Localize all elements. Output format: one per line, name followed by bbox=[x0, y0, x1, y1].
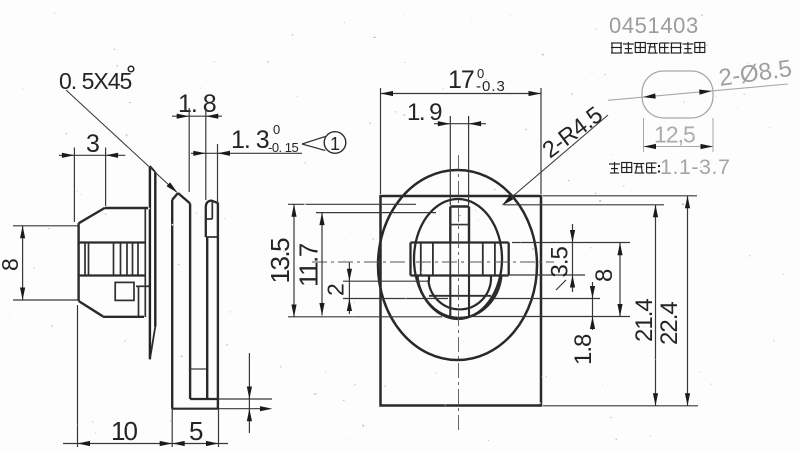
dim 1.9 arrow left bbox=[438, 121, 451, 126]
dim 1.8 ext lines bbox=[188, 108, 190, 192]
svg-text:1.8: 1.8 bbox=[570, 334, 597, 365]
dim 3 line bbox=[59, 154, 125, 156]
svg-text:0: 0 bbox=[273, 122, 281, 137]
dim 1.9 line bbox=[434, 123, 486, 125]
dim 13.5 ext lines bbox=[288, 203, 416, 205]
dim 21.4 arrow bottom bbox=[653, 393, 658, 406]
foot thickness arrow up bbox=[247, 409, 252, 422]
side view: head lower notch bbox=[115, 282, 134, 300]
dim 1.8 (side top) line bbox=[172, 115, 222, 117]
svg-text:11.7: 11.7 bbox=[294, 243, 324, 287]
dim 3.5 tick bbox=[556, 280, 566, 290]
svg-text:5: 5 bbox=[189, 416, 204, 446]
dim 12,5 ext lines bbox=[643, 118, 645, 152]
foot thickness arrow down bbox=[247, 387, 252, 400]
chamfer leader arrow bbox=[167, 182, 178, 192]
dim 1.3 arrow right bbox=[218, 151, 231, 156]
dim 1.8 (right) arrow bottom bbox=[590, 317, 595, 330]
dim 21.4 line bbox=[655, 205, 657, 406]
hole diameter arrow right bbox=[699, 90, 712, 95]
chamfer note degree circle bbox=[128, 66, 134, 72]
hole stadium outline bbox=[642, 71, 713, 118]
svg-text:22.4: 22.4 bbox=[656, 302, 683, 345]
dim 22.4 arrow top bbox=[685, 196, 690, 209]
chamfer leader bbox=[66, 90, 177, 192]
dim 10/5 line bbox=[63, 443, 228, 445]
dim 1.3 line bbox=[191, 152, 302, 154]
dim 2 line bbox=[348, 263, 350, 315]
svg-text:1. 3: 1. 3 bbox=[231, 126, 269, 154]
svg-text:1. 8: 1. 8 bbox=[178, 90, 216, 118]
scan speckle bbox=[510, 15, 511, 16]
dim 12,5 line bbox=[644, 146, 714, 148]
svg-text:13.5: 13.5 bbox=[265, 238, 295, 284]
front view: horizontal centerline bbox=[312, 261, 554, 263]
foot thickness side arrow bbox=[260, 406, 273, 411]
dim 10 arrow left bbox=[78, 441, 91, 446]
side view: flange plate bbox=[149, 166, 151, 359]
svg-text:1.1-3.7: 1.1-3.7 bbox=[660, 155, 730, 179]
dim 11.7 arrow bottom bbox=[319, 303, 324, 316]
dim 13.5 arrow top bbox=[291, 204, 296, 217]
dim 2 ext lines bbox=[343, 280, 430, 282]
balloon 1 leader triangle bbox=[302, 137, 325, 145]
title CJK text (sheet-metal hole schematic) bbox=[611, 42, 622, 44]
dim 8 (left) arrow bottom bbox=[20, 288, 25, 301]
dim 11.7 line bbox=[321, 213, 323, 316]
dim 11.7 ext line top bbox=[316, 212, 436, 214]
hole diameter arrow left bbox=[643, 93, 656, 98]
svg-text:3: 3 bbox=[86, 130, 100, 158]
dim 1.9 ext lines bbox=[449, 116, 451, 205]
front view: U-piece outer arc bbox=[417, 275, 501, 318]
thickness-range CJK label bbox=[614, 162, 616, 173]
dim 2 arrow bottom bbox=[347, 299, 352, 312]
dim 17 arrow right bbox=[529, 91, 542, 96]
dim 1.8 (right) ext lines bbox=[494, 298, 600, 300]
dim 8 (left) extension lines bbox=[13, 225, 78, 227]
dim 22.4 line bbox=[687, 196, 689, 406]
dim 1.8 (right) line bbox=[592, 282, 594, 330]
svg-text:8: 8 bbox=[0, 258, 23, 271]
side view: spring arm bbox=[172, 193, 178, 200]
dim 8 (left) line bbox=[22, 226, 24, 300]
dim 1.8 (right) arrow top bbox=[590, 286, 595, 299]
side view: head serration band bbox=[79, 241, 146, 243]
front view: vertical centerline bbox=[458, 155, 460, 430]
dim 3 extension lines bbox=[73, 148, 75, 223]
dim 21.4 ext line top bbox=[504, 204, 664, 206]
svg-text:2: 2 bbox=[323, 283, 349, 296]
dim 3.5 line bbox=[572, 224, 574, 292]
dim 10/5 extension lines bbox=[77, 305, 79, 447]
dim 1.3 arrow left bbox=[193, 151, 206, 156]
front view: bottom slot bbox=[449, 276, 451, 318]
dim 3.5 arrow bottom bbox=[570, 275, 575, 288]
dim 2 arrow top bbox=[347, 269, 352, 282]
dim 13.5 arrow bottom bbox=[291, 305, 296, 318]
foot thickness dim line bbox=[248, 353, 250, 433]
svg-text:-0.3: -0.3 bbox=[476, 78, 506, 95]
dim 3 arrow left bbox=[62, 153, 75, 158]
dim 22.4 ext line top bbox=[543, 195, 697, 197]
side view: foot bbox=[190, 398, 218, 400]
dim 8 (right) arrow bottom bbox=[617, 304, 622, 317]
foot thickness ext lines bbox=[219, 398, 273, 400]
front view: top slot bbox=[449, 207, 451, 243]
front view: cross band bbox=[411, 241, 509, 243]
dim 8 (left) arrow top bbox=[20, 226, 25, 239]
dim 13.5 line bbox=[293, 204, 295, 317]
svg-text:1. 9: 1. 9 bbox=[407, 99, 442, 126]
dim 8 (right) line bbox=[619, 243, 621, 317]
dim 5 arrow left bbox=[172, 441, 185, 446]
dim 17 arrow left bbox=[381, 91, 394, 96]
dim 12,5 arrow right bbox=[701, 144, 714, 149]
dim 17 ext lines bbox=[380, 88, 382, 194]
svg-text:17: 17 bbox=[448, 66, 474, 94]
label 2-R4.5 leader bbox=[503, 115, 609, 205]
balloon 1 circle bbox=[324, 132, 346, 154]
dim 10 arrow right bbox=[160, 441, 173, 446]
front view: U-piece chord bbox=[429, 295, 491, 297]
dim 1.8 (side top) arrow right bbox=[206, 114, 219, 119]
dim 3.5 ext lines bbox=[512, 242, 630, 244]
dim 1.9 arrow right bbox=[469, 121, 482, 126]
dim 21.4 arrow top bbox=[653, 205, 658, 218]
front view: inner oval bbox=[414, 199, 502, 319]
dim 3.5 arrow top bbox=[570, 230, 575, 243]
svg-text:0. 5X45: 0. 5X45 bbox=[59, 68, 131, 94]
svg-text:10: 10 bbox=[111, 416, 137, 446]
side view: head outline bbox=[79, 208, 105, 223]
svg-text:1: 1 bbox=[330, 134, 341, 154]
svg-text:12,5: 12,5 bbox=[654, 122, 695, 148]
dim 8 (right) arrow top bbox=[617, 243, 622, 256]
dim 3 arrow right bbox=[106, 153, 119, 158]
front view: U-piece inner arc bbox=[428, 280, 491, 309]
label 2-R4.5 arrow bbox=[502, 195, 513, 205]
hole diameter leader bbox=[608, 84, 788, 100]
dim 11.7 arrow top bbox=[319, 213, 324, 226]
front view: sheet rectangle bbox=[381, 196, 542, 406]
side view: panel edges bbox=[217, 203, 219, 409]
dim 12,5 arrow left bbox=[644, 144, 657, 149]
dim 22.4 ext line bottom bbox=[543, 405, 698, 407]
dim 1.8 (side top) arrow left bbox=[177, 114, 190, 119]
dim 22.4 arrow bottom bbox=[685, 393, 690, 406]
dim 1.3 ext line bbox=[217, 144, 219, 203]
dim 5 arrow right bbox=[206, 441, 219, 446]
svg-text:3.5: 3.5 bbox=[547, 246, 574, 277]
side view: barb cap bbox=[206, 201, 218, 237]
svg-text:0451403: 0451403 bbox=[609, 13, 699, 38]
dim 17 line bbox=[381, 93, 542, 95]
front view: large oval bbox=[378, 170, 537, 360]
svg-text:8: 8 bbox=[591, 268, 618, 282]
svg-text:21.4: 21.4 bbox=[631, 299, 658, 342]
